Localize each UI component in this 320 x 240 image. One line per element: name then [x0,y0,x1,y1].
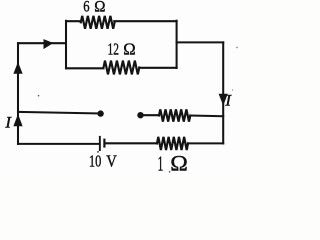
svg-text:12: 12 [108,40,119,59]
node dot left (open terminal) [97,110,103,116]
resistor (middle row) zigzag [159,109,190,121]
wire middle row resistor to right rail [190,114,223,117]
svg-text:Ω: Ω [94,0,105,16]
resistor 12 ohm zigzag [104,61,140,75]
speckle [232,89,233,90]
battery 10 V long plate [99,136,101,151]
speckle [169,171,171,173]
node dot right (open terminal) [137,112,143,118]
svg-text:10: 10 [89,151,101,170]
wire bottom row left (rail to battery) [18,143,99,145]
svg-text:6: 6 [83,0,90,16]
speckle [38,95,40,97]
wire top (left rail to parallel box) [18,42,66,44]
parallel box top edge left segment [66,20,81,22]
svg-text:Ω: Ω [123,40,135,59]
speckle [236,47,237,48]
current arrow up (left rail, upper) [14,63,22,73]
wire middle row left [18,112,101,114]
battery 10 V short plate [103,139,105,148]
parallel box right edge [176,21,178,68]
svg-text:1: 1 [158,151,164,175]
current arrow down (right rail) [219,94,227,104]
svg-text:I: I [224,93,232,110]
speckle [97,151,99,153]
svg-text:I: I [4,114,12,131]
parallel box top edge right segment [114,20,176,22]
wire middle row from right dot to resistor [141,114,159,116]
parallel box left edge [65,21,67,69]
wire bottom row resistor to right rail [188,142,223,144]
wire from box to right rail [177,41,224,43]
svg-text:V: V [106,151,117,170]
wire right rail [222,42,224,143]
current arrow on top wire [44,40,52,48]
parallel box bottom edge right segment [139,67,176,69]
wire bottom row battery to 1 ohm resistor [105,142,157,144]
wire left rail [17,43,19,144]
resistor 1 ohm zigzag [157,137,188,150]
parallel box bottom edge left segment [66,67,104,69]
current arrow up (left rail, lower) [14,115,22,125]
svg-text:Ω: Ω [170,150,188,175]
resistor 6 ohm zigzag [81,16,115,29]
